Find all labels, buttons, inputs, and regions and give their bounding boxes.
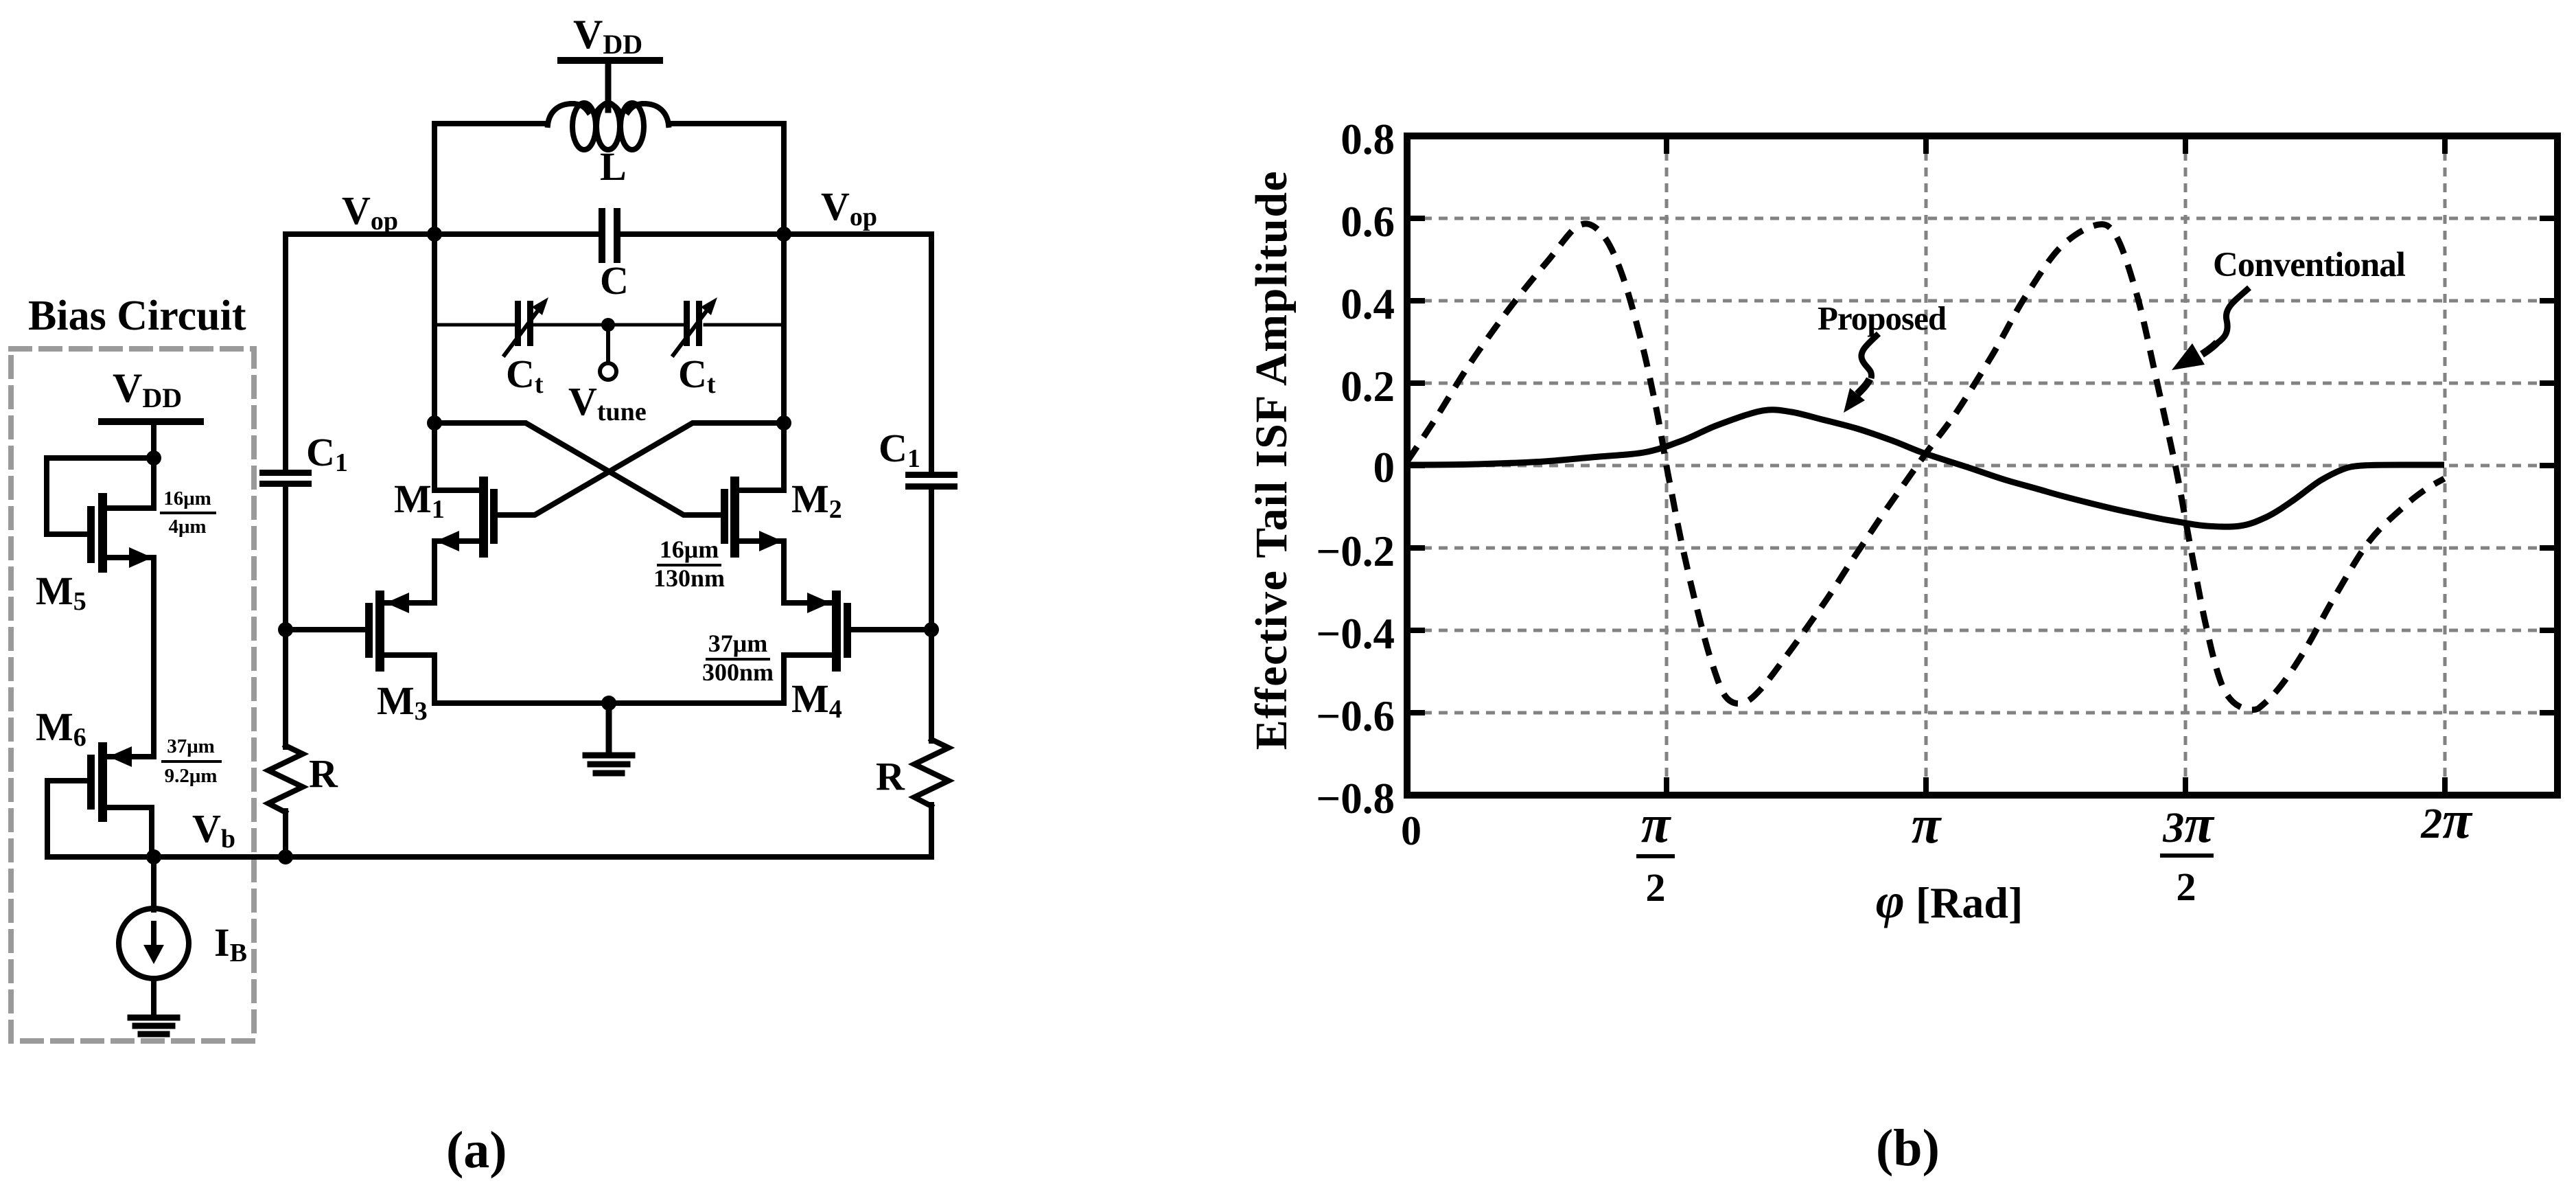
svg-text:2: 2 xyxy=(2177,864,2196,909)
wire VDD stem to M5 drain xyxy=(151,425,156,508)
wire M4 source down xyxy=(781,655,787,703)
wire M5 gate feedback xyxy=(47,458,154,534)
vertical gridline pi xyxy=(1925,136,1928,795)
svg-text:Effective Tail ISF Amplitude: Effective Tail ISF Amplitude xyxy=(1246,170,1297,750)
ground (bias) xyxy=(130,1018,177,1034)
wire tail to ground xyxy=(606,703,612,754)
svg-text:0.8: 0.8 xyxy=(1341,115,1395,163)
svg-text:Bias Circuit: Bias Circuit xyxy=(28,293,246,339)
svg-text:9.2μm: 9.2μm xyxy=(165,765,218,787)
axes box xyxy=(1407,136,2557,795)
capacitor C xyxy=(599,208,605,263)
transistor M2 xyxy=(730,477,739,558)
svg-text:φ [Rad]: φ [Rad] xyxy=(1876,873,2023,928)
wire tank top rail left xyxy=(434,124,548,234)
wire VDD stem to inductor xyxy=(605,64,612,110)
left axis ticks xyxy=(1407,218,1425,713)
wire M6 gate to Vb rail xyxy=(47,781,154,857)
wire tail rail xyxy=(434,700,784,706)
wire M3 gate to left branch xyxy=(286,627,365,632)
wire left branch lower xyxy=(283,811,288,857)
svg-text:37μm: 37μm xyxy=(167,735,215,757)
svg-text:37μm: 37μm xyxy=(708,630,767,657)
node cross-couple left xyxy=(427,415,442,431)
svg-text:Conventional: Conventional xyxy=(2213,246,2406,284)
horizontal gridline -0.4 xyxy=(1407,629,2557,632)
wire Vtune stem xyxy=(606,325,610,363)
svg-text:16μm: 16μm xyxy=(163,488,211,509)
arrow from Proposed label to solid curve xyxy=(1861,334,1879,378)
wire M2 source down xyxy=(781,541,787,603)
wire M6 source down xyxy=(149,807,154,857)
curve Proposed (solid) xyxy=(1407,410,2444,527)
svg-text:0.6: 0.6 xyxy=(1341,198,1395,246)
node left R to Vb rail xyxy=(278,849,293,864)
right axis ticks xyxy=(2540,218,2557,713)
vertical gridline 3pi/2 xyxy=(2184,136,2188,795)
svg-text:π: π xyxy=(1912,794,1942,854)
capacitor C1 right xyxy=(905,472,958,478)
wire Vb rail xyxy=(154,854,931,860)
svg-text:L: L xyxy=(600,144,627,189)
wire tank top rail right xyxy=(669,124,784,234)
terminal Vtune xyxy=(600,363,616,380)
node Vop left junction xyxy=(427,227,442,242)
resistor R left xyxy=(268,746,303,812)
horizontal gridline -0.2 xyxy=(1407,547,2557,550)
node M5 drain-gate junction xyxy=(146,450,161,466)
wire Vop line left segment xyxy=(286,231,600,237)
wire M1 source down xyxy=(432,541,437,603)
wire Vb node to current source xyxy=(151,857,156,910)
top axis ticks xyxy=(1667,136,2445,154)
wire right branch middle xyxy=(929,488,934,741)
horizontal gridline 0.2 xyxy=(1407,382,2557,385)
transistor M4 xyxy=(832,591,841,672)
wire cross-couple to M2 gate xyxy=(434,423,721,515)
svg-text:R: R xyxy=(309,751,338,796)
svg-text:0: 0 xyxy=(1401,808,1422,853)
svg-text:(b): (b) xyxy=(1876,1119,1940,1177)
horizontal gridline -0.6 xyxy=(1407,711,2557,715)
transistor M1 xyxy=(479,477,488,558)
wire right branch upper xyxy=(929,234,934,473)
node Vb junction xyxy=(146,849,161,864)
bottom axis ticks xyxy=(1667,777,2445,795)
wire varactor row right xyxy=(705,323,784,327)
wire varactor row left xyxy=(434,323,515,327)
svg-text:0: 0 xyxy=(1373,444,1395,492)
wire right tank vertical xyxy=(781,234,787,490)
transistor M5 xyxy=(98,493,107,573)
svg-text:130nm: 130nm xyxy=(653,564,725,592)
horizontal gridline 0.4 xyxy=(1407,299,2557,303)
transistor M6 xyxy=(98,742,107,822)
capacitor C1 left xyxy=(259,470,312,476)
horizontal gridline 0.6 xyxy=(1407,217,2557,220)
svg-text:−0.4: −0.4 xyxy=(1316,610,1395,658)
svg-text:300nm: 300nm xyxy=(702,658,774,686)
wire right branch lower xyxy=(929,805,934,857)
svg-text:0.4: 0.4 xyxy=(1341,280,1395,328)
svg-text:Proposed: Proposed xyxy=(1818,299,1947,337)
svg-text:−0.8: −0.8 xyxy=(1316,775,1395,823)
node Vtune junction xyxy=(601,318,615,332)
varactor Ct right xyxy=(684,301,690,346)
svg-text:π: π xyxy=(1641,794,1672,853)
ground (tail) xyxy=(585,755,632,773)
node tail junction xyxy=(601,696,616,711)
arrow from Conventional label to dashed curve xyxy=(2217,288,2249,343)
wire left branch middle xyxy=(283,485,288,747)
wire left tank vertical xyxy=(432,234,437,490)
svg-text:(a): (a) xyxy=(446,1121,507,1179)
horizontal gridline 0 xyxy=(1407,464,2557,468)
transistor M3 xyxy=(375,591,384,672)
power symbol VDD (bias) xyxy=(102,418,200,425)
varactor Ct left xyxy=(515,301,521,346)
wire left branch upper xyxy=(283,234,288,471)
resistor R right xyxy=(914,740,949,806)
svg-text:R: R xyxy=(876,754,905,799)
wire current source to ground xyxy=(151,978,156,1017)
svg-text:16μm: 16μm xyxy=(660,536,719,563)
current source IB xyxy=(119,908,189,978)
node M4 gate junction xyxy=(924,622,939,637)
wire Vop line right segment xyxy=(618,231,931,237)
svg-text:4μm: 4μm xyxy=(168,516,206,538)
node cross-couple right xyxy=(776,415,791,431)
wire M4 gate to right branch xyxy=(851,627,931,632)
svg-text:0.2: 0.2 xyxy=(1341,363,1395,411)
wire M5 source to M6 drain xyxy=(151,558,156,757)
power symbol VDD (tank) xyxy=(561,57,660,64)
wire cross-couple to M1 gate xyxy=(498,423,784,515)
svg-text:C: C xyxy=(600,258,629,303)
node M3 gate junction xyxy=(278,622,293,637)
svg-text:−0.6: −0.6 xyxy=(1316,692,1395,740)
bias circuit dashed box xyxy=(11,349,254,1041)
inductor L xyxy=(548,103,669,150)
svg-text:2: 2 xyxy=(1646,865,1666,910)
vertical gridline 2pi xyxy=(2444,136,2447,795)
node Vop right junction xyxy=(776,227,791,242)
svg-text:−0.2: −0.2 xyxy=(1316,527,1395,575)
wire M3 source down xyxy=(432,655,437,703)
wire varactor row center xyxy=(535,323,685,327)
curve Conventional (dashed) xyxy=(1407,224,2444,710)
vertical gridline pi/2 xyxy=(1665,136,1669,795)
